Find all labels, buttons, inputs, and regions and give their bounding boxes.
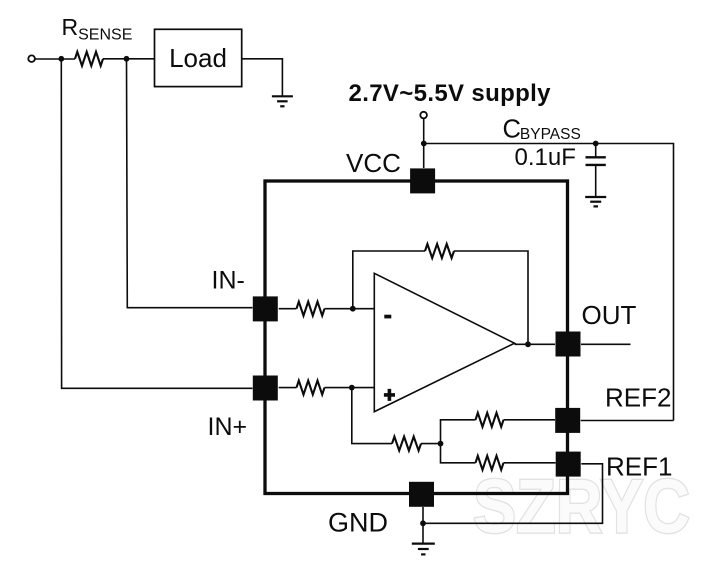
wire ref node down to R6 (441, 444, 476, 463)
pin REF1 (556, 452, 581, 477)
wire node B down to IN- (127, 59, 253, 308)
svg-text:OUT: OUT (582, 300, 637, 330)
supply terminal (420, 112, 427, 119)
wire feedback down to output node (454, 251, 528, 344)
wire ref node up to R5 (441, 420, 476, 444)
resistor R5 to REF2 (476, 413, 504, 427)
node supply junction (421, 141, 427, 147)
wire R4 to ref node (421, 443, 441, 445)
resistor R4 (392, 437, 421, 451)
op-amp plus sign (384, 389, 395, 401)
svg-text:Load: Load (169, 43, 227, 73)
wire REF2 pin to right rail (581, 420, 674, 422)
wire feedback up (353, 251, 425, 309)
wire OUT pin stub right (581, 343, 631, 345)
ground GND pin (412, 544, 435, 555)
node bypass junction (593, 141, 599, 147)
node non-inverting input (349, 385, 355, 391)
load box (155, 29, 242, 86)
op-amp minus sign (384, 315, 391, 319)
svg-text:IN-: IN- (212, 266, 245, 294)
op-amp IC body U1 (265, 181, 568, 494)
ground bypass (585, 197, 606, 206)
wire REF1 pin to ground rail (423, 464, 603, 524)
wire GND pin down (422, 507, 424, 544)
wire supply to bypass cap and right rail (424, 144, 674, 421)
svg-text:2.7V~5.5V supply: 2.7V~5.5V supply (349, 80, 552, 107)
resistor RSENSE (75, 52, 103, 66)
pin VCC (410, 168, 435, 193)
resistor R2 feedback (425, 244, 454, 258)
svg-text:IN+: IN+ (208, 413, 248, 441)
op-amp U1 triangle (374, 273, 514, 411)
resistor R3 input (297, 381, 325, 395)
wire supply to VCC pin (423, 118, 425, 168)
wire op-amp output to OUT pin (515, 343, 556, 345)
wire R1 to inverting node (325, 308, 376, 310)
wire IN+ pin to R3 (279, 387, 297, 389)
wire resistor to load (103, 58, 155, 60)
pin GND (409, 482, 434, 507)
capacitor CBYPASS (586, 144, 606, 198)
wire IN- pin to R1 (279, 308, 297, 310)
input terminal (28, 55, 35, 62)
wire node A down to IN+ (61, 59, 252, 388)
node A junction (58, 56, 64, 62)
wire non-inverting node down to R4 (352, 388, 392, 444)
wire R5 to REF2 pin (504, 419, 556, 421)
pin REF2 (555, 408, 580, 433)
svg-text:0.1uF: 0.1uF (515, 144, 576, 171)
svg-text:REF1: REF1 (606, 452, 672, 482)
wire R3 to non-inverting node (325, 387, 376, 389)
resistor R6 to REF1 (476, 456, 504, 470)
node GND junction (420, 520, 426, 526)
wire terminal to node A (34, 58, 75, 60)
svg-text:GND: GND (328, 508, 388, 538)
pin OUT (556, 332, 581, 357)
node output junction (525, 341, 531, 347)
svg-text:REF2: REF2 (605, 382, 671, 412)
node ref junction (438, 441, 444, 447)
svg-text:VCC: VCC (346, 148, 401, 178)
resistor R1 input (297, 302, 325, 316)
node B junction (124, 56, 130, 62)
wire load to ground (242, 59, 283, 97)
pin IN- (253, 296, 278, 321)
pin IN+ (253, 376, 278, 401)
wire R6 to REF1 pin (504, 462, 556, 464)
node inverting input (350, 306, 356, 312)
ground load (272, 96, 293, 106)
